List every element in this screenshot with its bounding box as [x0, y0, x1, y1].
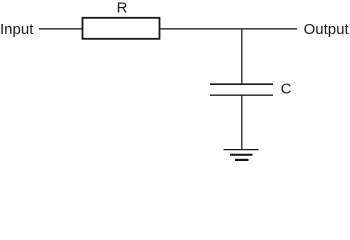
- ground: [224, 150, 259, 160]
- label C: [281, 80, 292, 97]
- resistor R: [83, 18, 160, 39]
- wire resistor to output node: [160, 28, 297, 30]
- wire input to resistor: [39, 28, 82, 30]
- net label Output: [304, 21, 350, 38]
- wire node to capacitor top: [241, 29, 243, 84]
- capacitor C: [210, 84, 273, 95]
- net label Input: [0, 21, 34, 38]
- svg-text:Input: Input: [0, 21, 34, 38]
- wire capacitor to ground: [241, 95, 243, 149]
- svg-text:C: C: [281, 80, 292, 97]
- svg-text:R: R: [117, 0, 128, 16]
- svg-text:Output: Output: [304, 21, 350, 38]
- label R: [117, 0, 128, 16]
